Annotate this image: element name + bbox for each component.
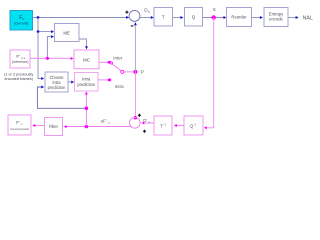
svg-text:(current): (current) (14, 22, 29, 26)
svg-text:Reorder: Reorder (231, 15, 247, 20)
block F'n reconstructed (8, 115, 31, 135)
wire ME to MC (79, 39, 88, 49)
node D'n (143, 118, 150, 124)
svg-text:Q: Q (192, 15, 196, 20)
wire Intra prediction to intra contact (98, 78, 111, 81)
wire Q to Reorder (203, 16, 227, 19)
block ME (55, 24, 80, 42)
svg-text:P: P (141, 69, 144, 75)
wire Entropy to NAL (288, 16, 299, 19)
svg-text:(reconstructed): (reconstructed) (10, 127, 29, 131)
svg-text:ME: ME (63, 30, 70, 35)
wire pivot to node P (124, 70, 137, 74)
node uF'n (101, 119, 110, 125)
block Intra prediction (75, 73, 99, 92)
block Filter (45, 118, 63, 136)
block MC (74, 50, 99, 69)
wire uFn to Choose Intra (37, 86, 86, 109)
block T inverse (154, 116, 172, 135)
wire Fn to top adder (33, 16, 130, 19)
block Entropy encode (264, 8, 288, 27)
svg-text:Filter: Filter (49, 124, 59, 129)
svg-text:n: n (148, 10, 150, 14)
svg-text:Entropy: Entropy (269, 11, 284, 16)
svg-text:-1: -1 (163, 122, 166, 126)
wire Filter to F'n (32, 124, 44, 127)
svg-text:(1 or 2 previously: (1 or 2 previously (4, 72, 33, 76)
wire Qinv to Tinv (174, 124, 184, 127)
svg-text:encode: encode (269, 17, 283, 22)
wire Choose to Intra prediction (68, 81, 74, 84)
svg-text:-1: -1 (194, 122, 197, 126)
wire uFn up to Intra prediction (85, 92, 89, 127)
svg-text:D′: D′ (143, 118, 147, 123)
block Q (185, 8, 203, 27)
svg-text:MC: MC (83, 58, 91, 63)
svg-text:F′: F′ (16, 120, 20, 125)
svg-text:prediction: prediction (77, 82, 95, 87)
wire P vertical lower segment to bottom adder (134, 72, 137, 120)
op bottom adder (129, 114, 146, 133)
switch inter contact circle (110, 62, 112, 64)
wire Tinv to bottom adder (141, 122, 154, 125)
svg-text:F′: F′ (16, 54, 20, 59)
wire MC to inter contact (99, 61, 111, 64)
wire Fn branch down to Choose Intra (38, 32, 44, 80)
wire reference up to ME (47, 35, 54, 58)
block Choose Intra prediction (45, 72, 68, 92)
block Reorder (227, 8, 252, 27)
svg-text:n: n (108, 121, 110, 125)
svg-text:uF′: uF′ (101, 119, 107, 124)
block T (154, 8, 173, 27)
label 1 or 2 previously encoded frames (4, 72, 34, 81)
svg-text:prediction: prediction (48, 85, 66, 90)
svg-text:encoded frames): encoded frames) (4, 77, 33, 81)
op top adder (125, 10, 140, 25)
wire top adder to T (140, 16, 154, 19)
switch lever (112, 64, 124, 74)
svg-text:Inter: Inter (113, 55, 123, 60)
block Q inverse (184, 116, 203, 135)
svg-text:Intra: Intra (115, 84, 125, 89)
block Fn current (10, 11, 33, 31)
wire bottom adder to Filter (64, 125, 131, 129)
svg-text:T: T (162, 15, 165, 20)
node X (212, 7, 217, 20)
wire reference to MC (30, 57, 74, 60)
wire Fn branch down to ME (37, 18, 54, 34)
block reference frame (10, 50, 30, 68)
wire P vertical upper segment to top adder (134, 22, 137, 72)
wire T to Q (173, 16, 184, 19)
wire X feedback to Qinv (204, 18, 214, 130)
svg-text:NAL: NAL (303, 16, 313, 22)
svg-text:n: n (148, 120, 150, 124)
node Dn (144, 8, 150, 14)
wire Reorder to Entropy (252, 16, 263, 19)
svg-text:(reference): (reference) (12, 60, 29, 64)
